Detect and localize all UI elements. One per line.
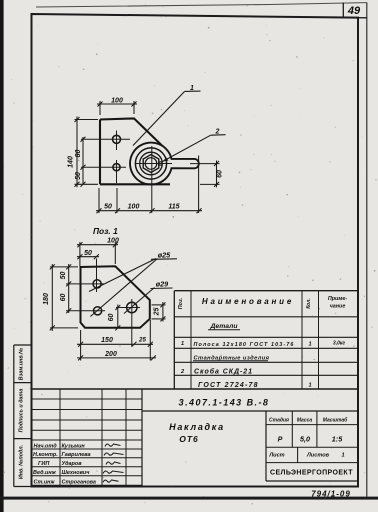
title block top line [32, 388, 359, 390]
dim 140 left view1 [75, 117, 99, 188]
svg-text:ГИП: ГИП [38, 461, 50, 467]
svg-text:49: 49 [347, 5, 361, 17]
svg-text:Полоса 12x180 ГОСТ 103-76: Полоса 12x180 ГОСТ 103-76 [194, 342, 295, 348]
svg-text:Кол.: Кол. [306, 298, 312, 308]
svg-text:1: 1 [308, 341, 311, 347]
svg-text:Гаврилева: Гаврилева [62, 452, 91, 458]
svg-text:140: 140 [68, 156, 75, 168]
crosshair hole lower [81, 160, 126, 213]
svg-text:Приме-: Приме- [328, 296, 347, 302]
svg-text:Взам.инв.№: Взам.инв.№ [19, 347, 25, 380]
svg-text:50: 50 [60, 272, 67, 280]
svg-text:1:5: 1:5 [332, 435, 343, 444]
drawing frame [32, 14, 359, 487]
svg-text:3,0кг: 3,0кг [333, 341, 345, 347]
svg-text:Поз.: Поз. [178, 297, 184, 309]
leader callout 1 [133, 92, 185, 146]
svg-text:Детали: Детали [210, 323, 239, 330]
svg-text:100: 100 [111, 98, 123, 105]
svg-text:Поз. 1: Поз. 1 [93, 226, 118, 236]
crosshair hole upper [81, 131, 130, 151]
svg-text:50: 50 [84, 250, 92, 257]
svg-text:Шехнович: Шехнович [62, 470, 91, 476]
svg-text:Вед.инж: Вед.инж [33, 470, 57, 476]
page edge: bottom dark line [0, 497, 378, 500]
svg-text:60: 60 [108, 314, 115, 322]
leader d25 to upper hole [89, 259, 156, 292]
svg-text:25: 25 [138, 337, 146, 344]
page edge: right vertical line [366, 2, 368, 496]
svg-text:1: 1 [341, 453, 344, 459]
dim 50 100 115 bottom view1 [96, 156, 202, 214]
svg-text:115: 115 [168, 203, 179, 210]
left table row texts [33, 443, 96, 485]
svg-text:ø25: ø25 [158, 251, 171, 260]
bolt shank circle [145, 158, 157, 170]
svg-text:80: 80 [75, 150, 82, 158]
small marker dot [159, 162, 162, 165]
dim 50 top view2 [77, 254, 99, 259]
dim 150 and 25 bottom view2 [77, 320, 153, 361]
svg-text:Накладка: Накладка [169, 422, 225, 432]
svg-text:150: 150 [101, 337, 113, 344]
clamp inner ring 2 [140, 152, 163, 175]
svg-text:Наименование: Наименование [202, 297, 294, 306]
svg-text:60: 60 [60, 294, 67, 302]
svg-text:25: 25 [154, 308, 161, 317]
bolt head hexagon [143, 155, 159, 173]
svg-text:50: 50 [104, 203, 112, 210]
svg-text:Н.контр.: Н.контр. [33, 452, 58, 458]
dim 25 right view2 [152, 302, 166, 322]
svg-text:60: 60 [217, 170, 224, 178]
svg-text:ГОСТ 2724-78: ГОСТ 2724-78 [198, 382, 259, 389]
svg-text:Лист: Лист [268, 453, 284, 459]
svg-text:Подпись и дата: Подпись и дата [19, 389, 25, 433]
svg-text:Скоба СКД-21: Скоба СКД-21 [194, 368, 253, 376]
svg-text:Строганова: Строганова [62, 479, 97, 485]
dim 100 top view2 [77, 242, 118, 266]
leader callout 2 [163, 135, 211, 161]
svg-text:794/1-09: 794/1-09 [311, 490, 351, 499]
right section grid [265, 411, 267, 481]
hole d29 [127, 302, 137, 312]
svg-text:Р: Р [278, 435, 283, 444]
svg-text:Листов: Листов [306, 453, 330, 459]
plate bottom edge view 1 [100, 183, 170, 185]
leader d25 to lower hole [90, 259, 157, 317]
svg-text:1: 1 [181, 341, 184, 347]
page edge: left black strip [0, 0, 4, 512]
svg-text:СЕЛЬЭНЕРГОПРОЕКТ: СЕЛЬЭНЕРГОПРОЕКТ [270, 470, 353, 477]
hole lower view1 [113, 164, 120, 171]
dim 60 inner vertical view2 [115, 305, 120, 331]
svg-text:3.407.1-143 В.-8: 3.407.1-143 В.-8 [179, 398, 270, 408]
dim 100 top view1 [97, 101, 137, 115]
svg-text:Масштаб: Масштаб [323, 417, 348, 424]
eye centerlines [136, 146, 220, 213]
svg-text:Стадия: Стадия [269, 418, 289, 424]
plate outline view 1 [100, 118, 165, 148]
svg-text:Нач.отд: Нач.отд [34, 443, 58, 449]
sheet number box 49 [342, 3, 344, 18]
svg-text:5,0: 5,0 [300, 435, 310, 444]
dim 80 50 left view1 [81, 137, 86, 187]
svg-text:100: 100 [128, 203, 140, 210]
hole d25 upper [93, 280, 101, 288]
page edge: top faint line [36, 3, 367, 7]
svg-text:ОТ6: ОТ6 [179, 434, 199, 444]
svg-text:Кузьмин: Кузьмин [62, 443, 86, 449]
svg-text:Ст.инж: Ст.инж [34, 479, 56, 485]
clamp (скоба) teardrop body [130, 143, 199, 185]
left table grid [32, 389, 143, 486]
svg-text:100: 100 [107, 238, 119, 245]
left stamp column boxes [14, 345, 32, 487]
svg-text:1: 1 [308, 382, 311, 388]
dim 60 right view1 [200, 161, 220, 188]
svg-text:ø29: ø29 [156, 280, 168, 289]
leader d29 [124, 288, 155, 314]
hole d25 lower [94, 307, 102, 315]
clamp inner ring 1 [135, 148, 166, 179]
svg-text:50: 50 [75, 172, 82, 180]
svg-text:Инв. №подл.: Инв. №подл. [19, 444, 25, 479]
svg-text:200: 200 [104, 351, 117, 358]
svg-text:Ударов: Ударов [62, 461, 83, 467]
signatures squiggles [103, 444, 124, 482]
spec table grid [174, 291, 358, 389]
doc number cell bottom [142, 410, 358, 412]
hole upper view1 [113, 135, 121, 143]
dim 200 bottom view2 [77, 355, 156, 360]
dim 50 60 left inner view2 [66, 264, 71, 313]
svg-text:Масса: Масса [297, 418, 313, 424]
svg-text:180: 180 [43, 293, 50, 305]
dim 180 left view2 [50, 264, 78, 331]
svg-text:чание: чание [330, 304, 346, 310]
hole centerline extensions [66, 259, 140, 347]
plate outline view 2 [81, 266, 150, 328]
